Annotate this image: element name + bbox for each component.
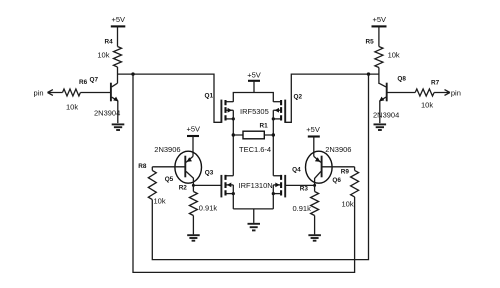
resistor R3 xyxy=(293,185,319,215)
wire bridge bottom rail xyxy=(233,208,273,210)
svg-text:R2: R2 xyxy=(179,184,188,191)
svg-text:Q1: Q1 xyxy=(205,93,214,100)
svg-text:10k: 10k xyxy=(421,101,433,110)
svg-text:R4: R4 xyxy=(105,39,114,46)
svg-text:Q5: Q5 xyxy=(165,176,174,183)
wire node B horizontal to Q2 gate xyxy=(285,74,379,122)
transistor Q6 2N3906 xyxy=(306,145,352,186)
resistor R1 TEC1.6-4 (box) xyxy=(233,123,273,155)
resistor R9 xyxy=(341,167,359,209)
wire Q5 base to R8 xyxy=(152,166,184,168)
svg-text:Q3: Q3 xyxy=(205,170,214,177)
wire Q7 emitter down xyxy=(117,101,119,124)
wire Q4 body lead to bottom rail xyxy=(272,185,274,209)
svg-text:Q6: Q6 xyxy=(332,177,341,184)
svg-text:2N3904: 2N3904 xyxy=(94,109,120,118)
transistor Q7 2N3904 xyxy=(90,77,121,118)
svg-text:IRF1310N: IRF1310N xyxy=(239,181,273,190)
svg-text:Q8: Q8 xyxy=(397,76,406,83)
wire +5V to Q6 emitter xyxy=(313,137,315,157)
pin (left input) xyxy=(34,89,63,98)
wire node A horizontal to Q1 gate xyxy=(118,74,222,122)
svg-text:0.91k: 0.91k xyxy=(293,204,312,213)
svg-text:10k: 10k xyxy=(342,200,354,209)
mosfet Q2 IRF5305 xyxy=(273,94,302,123)
svg-text:R1: R1 xyxy=(260,123,269,130)
ground (R3) xyxy=(308,235,321,241)
wire feedback outer: node A to R9 bottom xyxy=(133,74,355,272)
wire R5 bottom to Q8 collector xyxy=(378,68,380,84)
resistor R8 xyxy=(138,163,166,206)
wire Q1 body/source to bridge left node xyxy=(232,110,234,176)
wire R3 to ground xyxy=(314,216,316,235)
resistor R5 xyxy=(366,39,400,68)
power +5V (left, above R4) xyxy=(111,15,126,26)
svg-text:R9: R9 xyxy=(341,169,350,176)
svg-text:+5V: +5V xyxy=(373,15,387,24)
svg-text:pin: pin xyxy=(34,89,44,98)
wire +5V to R4 xyxy=(117,26,119,46)
node B junction dot xyxy=(367,72,370,75)
svg-text:R7: R7 xyxy=(431,80,440,87)
ground (bridge center) xyxy=(248,224,261,231)
mosfet Q3 IRF1310N xyxy=(205,170,234,198)
pin (right output) xyxy=(434,89,461,98)
power +5V (center, bridge top) xyxy=(247,71,261,81)
svg-text:10k: 10k xyxy=(66,103,78,112)
svg-text:R6: R6 xyxy=(79,79,88,86)
resistor R4 xyxy=(97,39,121,68)
power +5V (left driver, above Q5) xyxy=(187,125,201,137)
ground (Q8 emitter) xyxy=(374,124,387,130)
svg-text:10k: 10k xyxy=(154,197,166,206)
svg-text:10k: 10k xyxy=(97,51,109,60)
svg-text:TEC1.6-4: TEC1.6-4 xyxy=(239,145,271,154)
wire R2 to ground xyxy=(192,216,194,235)
wire Q6 collector to Q4 gate xyxy=(285,184,314,186)
svg-text:pin: pin xyxy=(451,89,461,98)
wire center +5V to rail xyxy=(253,81,255,93)
wire Q8 base to R7 xyxy=(388,92,416,94)
wire Q8 emitter down xyxy=(379,101,381,124)
wire +5V to R5 xyxy=(378,26,380,46)
node A junction dot xyxy=(131,72,134,75)
svg-text:R5: R5 xyxy=(366,39,375,46)
svg-text:IRF5305: IRF5305 xyxy=(240,107,269,116)
resistor R6 xyxy=(63,79,88,112)
transistor Q8 2N3904 xyxy=(373,76,406,120)
wire R4 bottom to Q7 collector xyxy=(117,67,119,83)
junction dot Q5 collector node xyxy=(192,184,195,187)
junction dots on Q3/Q4 source leads xyxy=(232,192,235,195)
svg-text:2N3904: 2N3904 xyxy=(373,111,399,120)
resistor R7 xyxy=(415,80,439,110)
svg-text:R8: R8 xyxy=(138,163,147,170)
wire rail to center ground xyxy=(253,209,255,223)
power +5V (right, above R5) xyxy=(372,15,387,26)
mosfet Q4 IRF1310N xyxy=(273,167,301,198)
ground (Q7 emitter) xyxy=(112,124,125,130)
wire Q2 body/source to bridge right node xyxy=(272,110,274,176)
svg-text:+5V: +5V xyxy=(187,125,201,134)
node bridge-right dot xyxy=(272,133,275,136)
svg-text:R3: R3 xyxy=(300,185,309,192)
wire feedback inner: node B to R8 bottom xyxy=(152,74,368,260)
junction dots on mosfet source leads xyxy=(232,117,235,120)
svg-text:10k: 10k xyxy=(388,51,400,60)
junction dot Q6 collector node xyxy=(313,184,316,187)
svg-text:Q4: Q4 xyxy=(292,167,301,174)
svg-text:+5V: +5V xyxy=(112,15,126,24)
wire R6 to Q7 base xyxy=(80,92,110,94)
wire Q5 collector to Q3 gate xyxy=(193,184,221,186)
transistor Q5 2N3906 xyxy=(154,145,201,185)
wire Q3 body lead to bottom rail xyxy=(232,185,234,209)
svg-text:+5V: +5V xyxy=(247,71,261,80)
svg-text:Q7: Q7 xyxy=(90,77,99,84)
svg-text:2N3906: 2N3906 xyxy=(325,145,351,154)
wire bridge top rail xyxy=(233,93,273,102)
svg-text:Q2: Q2 xyxy=(294,94,303,101)
svg-text:2N3906: 2N3906 xyxy=(154,145,180,154)
wire Q6 base to R9 xyxy=(322,166,354,168)
power +5V (right driver, above Q6) xyxy=(306,125,320,137)
node bridge-left dot xyxy=(232,133,235,136)
svg-text:0.91k: 0.91k xyxy=(199,203,218,212)
svg-text:+5V: +5V xyxy=(306,125,320,134)
wire +5V to Q5 emitter xyxy=(192,136,194,156)
ground (R2) xyxy=(187,235,200,241)
mosfet Q1 IRF5305 xyxy=(205,93,234,123)
resistor R2 xyxy=(179,184,218,215)
